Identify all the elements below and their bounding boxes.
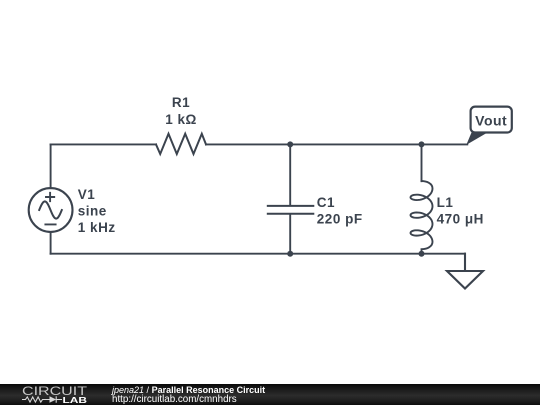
svg-text:470 μH: 470 μH: [437, 212, 484, 227]
svg-text:Vout: Vout: [475, 113, 507, 129]
svg-text:R1: R1: [172, 95, 190, 110]
svg-text:sine: sine: [78, 204, 107, 219]
svg-text:LAB: LAB: [63, 396, 88, 405]
svg-text:1 kΩ: 1 kΩ: [165, 112, 197, 127]
svg-text:1 kHz: 1 kHz: [78, 220, 116, 235]
svg-text:220 pF: 220 pF: [317, 212, 363, 227]
svg-text:C1: C1: [317, 195, 335, 210]
svg-text:V1: V1: [78, 187, 96, 202]
svg-text:L1: L1: [437, 195, 454, 210]
